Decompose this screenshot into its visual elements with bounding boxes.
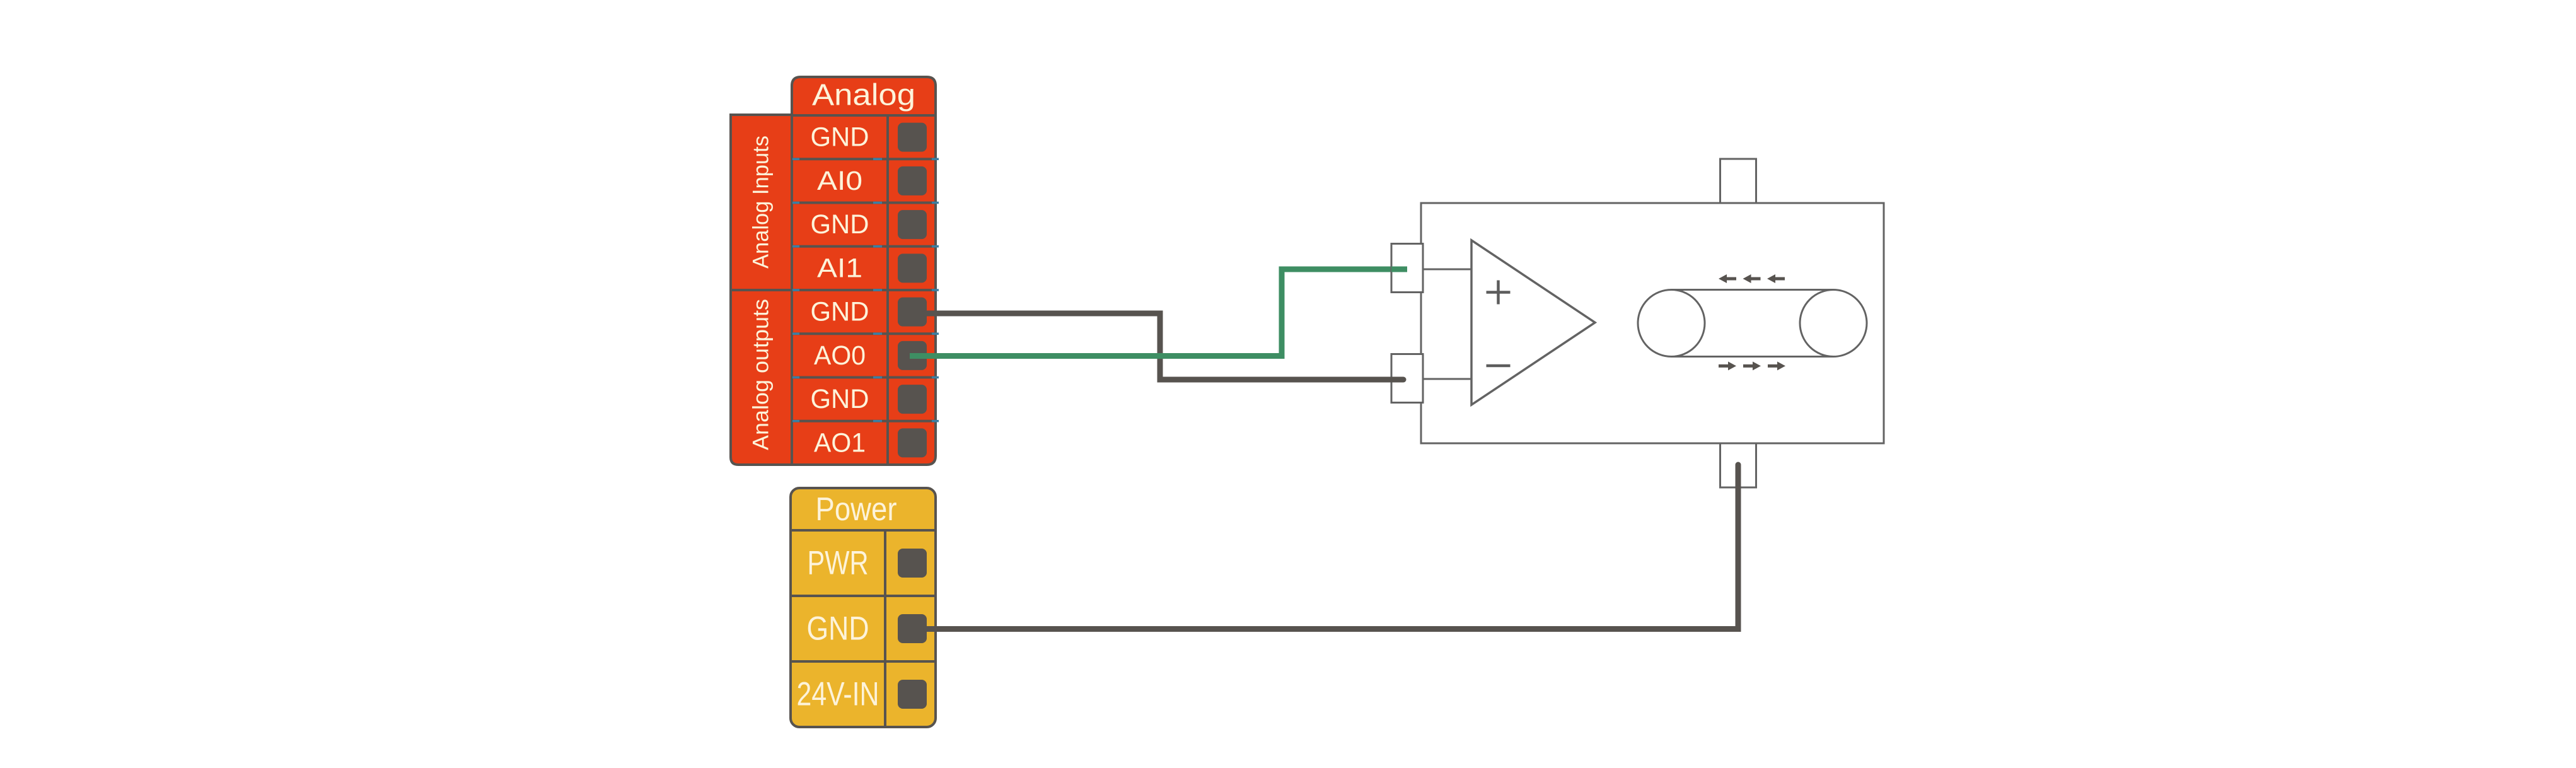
svg-text:24V-IN: 24V-IN <box>797 676 879 713</box>
svg-text:GND: GND <box>811 297 869 327</box>
svg-text:Analog Inputs: Analog Inputs <box>749 136 774 269</box>
svg-text:Analog outputs: Analog outputs <box>749 299 774 450</box>
svg-text:GND: GND <box>811 209 869 240</box>
svg-text:GND: GND <box>807 610 869 648</box>
svg-text:PWR: PWR <box>808 545 869 582</box>
svg-text:Power: Power <box>816 491 897 528</box>
svg-text:AI0: AI0 <box>817 166 862 196</box>
svg-text:AI1: AI1 <box>817 253 862 283</box>
svg-text:AO0: AO0 <box>814 340 866 371</box>
svg-text:GND: GND <box>811 384 869 414</box>
svg-text:AO1: AO1 <box>814 428 866 458</box>
svg-text:GND: GND <box>811 122 869 153</box>
svg-text:Analog: Analog <box>812 79 915 112</box>
